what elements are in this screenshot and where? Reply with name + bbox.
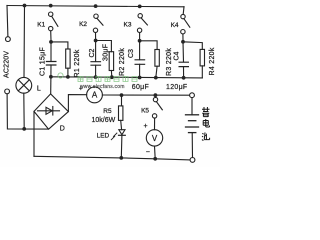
- node junction K4 bottom: [181, 40, 185, 44]
- svg-text:30μF: 30μF: [102, 44, 109, 61]
- resistor R4: [183, 42, 205, 78]
- node junction bottom rail LED: [119, 156, 123, 160]
- node junction bottom rail voltmeter: [153, 157, 157, 161]
- resistor R3: [140, 41, 160, 78]
- svg-text:V: V: [152, 134, 158, 143]
- wire middle rail: [51, 77, 202, 78]
- resistor R5: [119, 95, 123, 130]
- resistor R1: [51, 42, 70, 77]
- ammeter A: [87, 87, 103, 103]
- svg-text:R4 220k: R4 220k: [209, 47, 216, 75]
- svg-text:K3: K3: [124, 22, 132, 29]
- node battery terminal lower: [190, 158, 195, 163]
- svg-text:C2: C2: [89, 48, 96, 57]
- switch K1: [49, 4, 58, 41]
- node junction K1 bottom: [49, 40, 53, 44]
- svg-text:−: −: [146, 149, 150, 156]
- watermark green row1: [58, 73, 137, 82]
- svg-text:K1: K1: [37, 22, 45, 29]
- wire lamp branch upper: [23, 6, 26, 78]
- capacitor C1: [46, 42, 56, 77]
- svg-text:AC220V: AC220V: [3, 51, 10, 78]
- svg-text:120μF: 120μF: [166, 84, 188, 91]
- svg-text:L: L: [37, 85, 41, 92]
- svg-text:LED: LED: [97, 132, 110, 139]
- svg-text:C4: C4: [173, 51, 180, 60]
- svg-text:K2: K2: [79, 21, 87, 28]
- node junction R5 tap: [120, 93, 124, 97]
- svg-text:K4: K4: [171, 22, 179, 29]
- LED: [111, 130, 125, 158]
- label battery 蓄电池 (hand drawn glyphs): [202, 107, 210, 141]
- lamp L: [16, 77, 32, 93]
- node junction K2 bottom: [94, 39, 98, 43]
- capacitor C4: [179, 42, 188, 78]
- svg-text:K5: K5: [141, 108, 149, 115]
- svg-text:10k/6W: 10k/6W: [92, 117, 116, 124]
- wire battery top: [191, 98, 193, 115]
- wire voltmeter to rail: [154, 146, 157, 159]
- switch K3: [137, 5, 147, 40]
- node AC terminal upper: [6, 37, 11, 42]
- capacitor C2: [91, 41, 101, 78]
- svg-text:R2 220k: R2 220k: [119, 48, 126, 76]
- wire left AC drop: [6, 6, 9, 37]
- svg-text:+: +: [144, 123, 148, 130]
- wire lamp branch lower: [23, 93, 25, 129]
- wire top rail: [7, 6, 184, 7]
- battery cells: [186, 115, 199, 133]
- node junction K5 tap: [154, 93, 158, 97]
- wire DC minus drop: [33, 111, 35, 156]
- resistor R2: [96, 41, 114, 78]
- svg-text:R3 220k: R3 220k: [166, 48, 173, 76]
- wire battery bottom: [191, 133, 193, 158]
- svg-text:C3: C3: [128, 49, 135, 58]
- capacitor C3: [135, 41, 145, 78]
- svg-text:C1 15μF: C1 15μF: [40, 47, 47, 76]
- node junction lamp-AC: [22, 127, 26, 131]
- svg-text:A: A: [92, 91, 98, 100]
- voltmeter V: [146, 130, 162, 146]
- node battery terminal upper: [190, 93, 195, 98]
- svg-text:R5: R5: [103, 108, 112, 115]
- svg-text:R1 220k: R1 220k: [74, 49, 81, 77]
- svg-text:D: D: [60, 125, 65, 132]
- svg-text:www.elecfans.com: www.elecfans.com: [80, 84, 125, 90]
- wire DC plus rail: [102, 94, 189, 96]
- svg-text:60μF: 60μF: [132, 84, 149, 91]
- wire bottom rail: [34, 156, 190, 160]
- node junction K3 bottom: [138, 39, 142, 43]
- bridge rectifier D: [34, 94, 68, 129]
- switch K4: [181, 7, 190, 40]
- wire AC lower to bridge: [7, 94, 48, 129]
- switch K5: [152, 97, 162, 129]
- wire bridge feed: [50, 77, 52, 94]
- node junction top rail lamp: [23, 4, 27, 8]
- switch K2: [93, 4, 103, 39]
- wire DC plus from bridge: [68, 95, 86, 112]
- node junctions middle rail: [49, 75, 186, 80]
- node AC terminal lower: [5, 89, 10, 94]
